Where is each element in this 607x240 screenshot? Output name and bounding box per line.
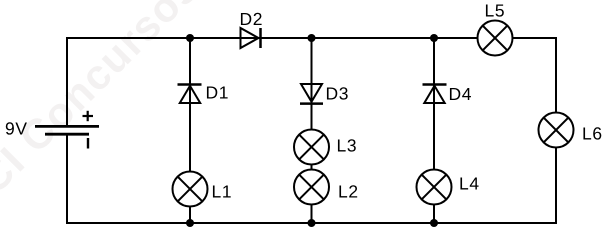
label L6 (583, 127, 601, 139)
wire branch 3 vertical (433, 38, 435, 223)
wire top horizontal (66, 37, 478, 39)
wire left vertical upper (battery +) (66, 37, 68, 126)
lamp L1 (173, 172, 208, 207)
label L2 (339, 185, 357, 197)
wire bottom horizontal (66, 222, 557, 224)
junction node top branch 1 (186, 34, 194, 42)
label L3 (338, 139, 356, 151)
diode D1 (vertical, cathode bar on top, triangle pointing up) (178, 85, 202, 104)
junction node top branch 3 (430, 34, 438, 42)
label D4 (450, 88, 471, 100)
wire right vertical lower (555, 147, 557, 224)
lamp L2 (294, 170, 329, 205)
junction node bottom branch 1 (186, 219, 194, 227)
label L1 (213, 185, 231, 197)
label D3 (327, 87, 348, 99)
diode D2 (horizontal, pointing right) (241, 28, 261, 48)
wire left vertical lower (battery -) (66, 135, 68, 224)
label 9V (6, 122, 27, 134)
junction node bottom branch 3 (430, 219, 438, 227)
wire branch 1 vertical (189, 38, 191, 223)
junction node top branch 2 (308, 34, 316, 42)
diode D3 (vertical, pointing down, cathode bar at bottom) (300, 84, 323, 104)
lamp L3 (294, 130, 329, 165)
lamp L6 (539, 113, 574, 148)
wire branch 2 vertical (311, 38, 313, 223)
label L4 (460, 177, 478, 189)
wire top horizontal right of lamp L5 (513, 37, 558, 39)
diode D4 (vertical, cathode bar on top, triangle pointing up) (423, 85, 447, 104)
junction node bottom branch 2 (308, 219, 316, 227)
label D1 (207, 86, 228, 98)
label L5 (486, 4, 504, 16)
wire right vertical upper (555, 37, 557, 113)
label D2 (241, 13, 262, 25)
battery B1 9V (35, 111, 99, 149)
lamp L5 (478, 21, 513, 56)
lamp L4 (417, 170, 452, 205)
